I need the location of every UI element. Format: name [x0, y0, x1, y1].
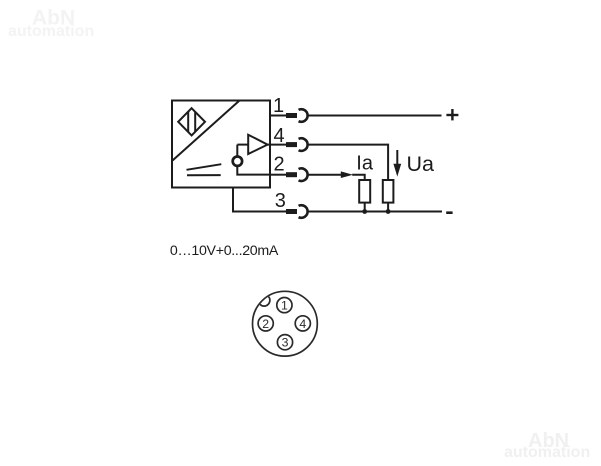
wire: arrow to Ia load corner: [352, 175, 365, 180]
wire: amp input horizontal: [237, 144, 248, 146]
pin 2 connector contact: [286, 172, 297, 177]
wire: sensor bottom to pin3 row: [233, 188, 286, 212]
wire: pin1 to + supply: [307, 115, 442, 117]
connector face view (M12 plug): [253, 291, 318, 356]
wire: node to amp input: [236, 145, 238, 157]
wire: pin1 row inside segment: [270, 115, 286, 117]
connector outer shell: [253, 291, 318, 356]
wire: node to pin2 branch: [237, 166, 270, 175]
junction dot pin3/Ua: [386, 209, 391, 214]
- supply terminal: [446, 211, 452, 214]
adjustment base line: [187, 174, 221, 176]
diamond left chord: [187, 112, 189, 132]
Ua voltage arrow: [396, 150, 398, 165]
svg-text:1: 1: [273, 95, 284, 117]
sensor internal divider: [173, 101, 240, 161]
connector pin 3 hole: [277, 335, 292, 350]
pin 3 connector contact: [286, 209, 297, 214]
watermark AbN bottom-right: [504, 430, 590, 461]
current direction arrowhead on pin2 wire: [341, 171, 353, 178]
svg-text:0…10V+0...20mA: 0…10V+0...20mA: [170, 243, 279, 259]
wire: pin3 to - supply: [307, 211, 442, 213]
wire: pin2 row inside segment: [270, 174, 286, 176]
signal node circle: [233, 157, 242, 166]
svg-text:4: 4: [274, 125, 285, 147]
connector pin 2 hole: [258, 316, 273, 331]
pin 3 connector socket arc: [299, 205, 308, 218]
svg-text:Ua: Ua: [407, 152, 435, 176]
inductive sensing symbol (diamond): [178, 108, 205, 135]
pin 4 connector socket arc: [299, 138, 308, 151]
pin 1 connector socket arc: [299, 109, 308, 122]
svg-text:automation: automation: [8, 23, 94, 40]
watermark AbN top-left: [8, 7, 94, 41]
svg-text:automation: automation: [504, 444, 590, 461]
junction dot pin3/Ia: [362, 209, 367, 214]
wire: Ua load bottom: [387, 203, 389, 212]
wire: pin2 toward load Ia: [307, 174, 344, 176]
svg-text:2: 2: [262, 317, 269, 331]
resistor load Ia: [359, 180, 370, 203]
connector pin 4 hole: [295, 316, 310, 331]
resistor load Ua: [383, 180, 394, 203]
op-amp A1 output amplifier: [248, 135, 267, 154]
connector pin 1 hole: [277, 298, 292, 313]
sensor body U1 outline: [172, 101, 270, 188]
pin 1 connector contact: [286, 113, 297, 118]
+ supply terminal: [446, 109, 458, 120]
pin 2 connector socket arc: [299, 168, 308, 181]
diamond right chord: [194, 112, 196, 132]
svg-text:1: 1: [281, 299, 288, 313]
adjustment slant line: [187, 164, 222, 170]
svg-text:4: 4: [299, 317, 306, 331]
svg-text:Ia: Ia: [356, 153, 374, 175]
pin 4 connector contact: [286, 142, 297, 147]
connector keying notch: [258, 295, 270, 307]
wire: pin4 row inside segment: [268, 144, 287, 146]
svg-text:3: 3: [275, 190, 286, 212]
svg-text:3: 3: [282, 336, 289, 350]
wire: pin4 to load Ua: [307, 145, 388, 180]
wire: Ia load bottom: [364, 203, 366, 212]
svg-text:2: 2: [273, 154, 284, 176]
